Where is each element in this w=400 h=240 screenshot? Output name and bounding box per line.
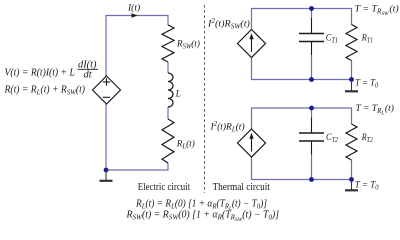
svg-text:V(t) = R(t)I(t) + L: V(t) = R(t)I(t) + L [5, 67, 76, 78]
svg-text:I2(t)RSW(t): I2(t)RSW(t) [207, 17, 250, 30]
svg-text:RSW(t): RSW(t) [176, 38, 200, 50]
svg-text:R(t) = RL(t) + RSW(t): R(t) = RL(t) + RSW(t) [4, 84, 86, 96]
svg-text:I(t): I(t) [127, 3, 140, 14]
svg-text:L: L [175, 90, 181, 100]
svg-text:RT2: RT2 [361, 131, 373, 144]
svg-text:T = TRL (t): T = TRL (t) [356, 103, 394, 117]
svg-text:RL(t): RL(t) [176, 138, 195, 150]
svg-text:CT1: CT1 [326, 32, 338, 45]
svg-text:T = TRSW (t): T = TRSW (t) [355, 4, 399, 17]
svg-text:RT1: RT1 [361, 32, 373, 45]
svg-text:RSW(t) = RSW(0) [1 + αR(TRSW(t: RSW(t) = RSW(0) [1 + αR(TRSW(t) − T0)] [126, 209, 280, 223]
svg-text:Thermal circuit: Thermal circuit [213, 182, 271, 194]
svg-text:T = T0: T = T0 [355, 180, 379, 191]
svg-text:I2(t)RL(t): I2(t)RL(t) [210, 121, 245, 134]
svg-text:Electric circuit: Electric circuit [138, 182, 191, 194]
svg-text:CT2: CT2 [326, 132, 339, 145]
svg-text:T = T0: T = T0 [355, 77, 379, 89]
svg-text:dt: dt [84, 70, 93, 81]
